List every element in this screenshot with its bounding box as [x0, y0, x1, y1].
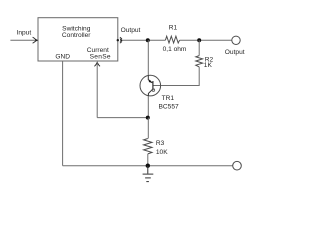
- wire R1 to node B: [180, 39, 200, 41]
- svg-text:1K: 1K: [204, 62, 213, 69]
- transistor TR1 base bar: [152, 81, 154, 90]
- wire node B to output terminal: [199, 39, 232, 41]
- transistor TR1 emitter arrow (PNP): [149, 80, 153, 84]
- wire node A to R1: [148, 39, 166, 41]
- wire bottom rail: [63, 165, 233, 167]
- resistor R3: [144, 139, 152, 154]
- svg-text:SenSe: SenSe: [90, 53, 111, 60]
- pin label Current Sense: [87, 47, 111, 60]
- resistor R1: [165, 36, 179, 43]
- svg-text:R1: R1: [169, 25, 178, 32]
- svg-text:Output: Output: [121, 27, 141, 34]
- bottom return terminal circle: [233, 161, 242, 170]
- output pin connection dot: [117, 39, 119, 41]
- wire input lead: [10, 39, 35, 41]
- svg-text:GND: GND: [55, 54, 70, 61]
- junction node A: [146, 38, 150, 42]
- svg-text:Controller: Controller: [62, 32, 91, 39]
- wire current sense vertical: [96, 62, 98, 118]
- svg-text:10K: 10K: [156, 149, 168, 156]
- current sense pin arrow: [94, 61, 100, 66]
- wire GND pin down: [62, 61, 64, 166]
- wire node A down to emitter: [147, 40, 149, 75]
- resistor R2: [196, 56, 203, 67]
- ground symbol: [143, 166, 154, 182]
- wire collector down to node C: [147, 96, 149, 118]
- junction node B: [197, 38, 201, 42]
- label: Switching Controller: [62, 26, 91, 40]
- output terminal circle: [232, 36, 240, 44]
- svg-text:Output: Output: [225, 49, 245, 56]
- junction node D: [146, 164, 150, 168]
- svg-text:BC557: BC557: [159, 103, 179, 110]
- wire base segment into transistor: [153, 85, 161, 87]
- svg-text:Input: Input: [17, 30, 32, 37]
- wire R2 to base corner: [161, 67, 199, 86]
- output pin arrow: [120, 37, 123, 43]
- transistor TR1 collector dot circle: [152, 89, 155, 92]
- switching controller box U1: [38, 18, 118, 61]
- wire R3 to node D: [147, 154, 149, 166]
- svg-text:0,1 ohm: 0,1 ohm: [163, 46, 187, 53]
- transistor TR1 emitter lead: [148, 75, 152, 83]
- svg-text:TR1: TR1: [162, 95, 175, 102]
- junction node C: [146, 116, 150, 120]
- svg-text:R3: R3: [156, 140, 165, 147]
- wire node B down to R2: [198, 40, 200, 55]
- wire output to node A: [123, 39, 148, 41]
- wire current sense horizontal to node C: [97, 117, 148, 119]
- transistor Q1 TR1 body circle: [140, 75, 161, 96]
- transistor TR1 collector lead: [148, 89, 153, 96]
- input pin arrow: [33, 37, 39, 43]
- wire node C to R3: [147, 118, 149, 139]
